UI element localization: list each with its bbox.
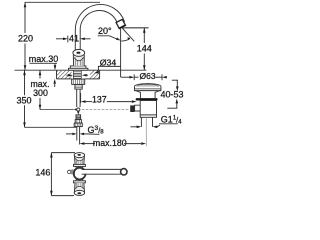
drain gasket bbox=[136, 98, 158, 100]
dim 350 top arrow bbox=[23, 70, 26, 75]
plan bottom knob neck bbox=[76, 178, 84, 181]
handle knob skirt curve bbox=[74, 57, 84, 60]
plan bottom knob flutes bbox=[76, 183, 82, 189]
dim 350 line bbox=[24, 70, 26, 95]
plan top knob neck bbox=[76, 166, 84, 169]
svg-text:350: 350 bbox=[16, 95, 31, 105]
spout outlet horizontal reference bbox=[122, 27, 149, 29]
svg-text:220: 220 bbox=[18, 34, 33, 44]
plan top knob skirt curve bbox=[75, 158, 85, 161]
drain tailpipe bbox=[140, 117, 142, 127]
plan spout tube bbox=[82, 170, 122, 174]
dim 350 bottom arrow bbox=[23, 122, 26, 127]
svg-text:Ø63: Ø63 bbox=[140, 71, 156, 81]
G3/8 connector threaded bbox=[76, 115, 81, 120]
threaded shank through counter bbox=[73, 70, 81, 79]
hole arrows in slab bbox=[68, 74, 73, 77]
svg-text:137: 137 bbox=[92, 95, 107, 105]
dim 220 bottom arrow bbox=[24, 65, 27, 70]
svg-text:Ø34: Ø34 bbox=[100, 57, 117, 67]
plan bottom knob base band bbox=[74, 181, 86, 183]
dim 220 top arrow bbox=[24, 2, 27, 7]
dim G3/8 leader arrows bbox=[66, 133, 72, 135]
plan top knob base band bbox=[74, 164, 86, 166]
dim Ø34 underline leader bbox=[98, 66, 120, 71]
plan spout end ring bbox=[121, 169, 127, 175]
plan left spigot bbox=[68, 170, 71, 173]
dim 220 top reference line bbox=[25, 1, 100, 3]
handle knob top slot bbox=[76, 52, 80, 54]
svg-text:20°: 20° bbox=[98, 26, 112, 36]
svg-text:max.30: max.30 bbox=[29, 54, 59, 64]
dim max30 drop line bbox=[54, 63, 56, 66]
threaded collar bbox=[75, 85, 82, 90]
svg-text:40-53: 40-53 bbox=[160, 89, 183, 99]
dim max300 line bbox=[39, 70, 41, 78]
dim max30 underline bbox=[30, 62, 58, 64]
countertop slab right section hatched bbox=[82, 70, 113, 78]
dim 137 extension line bbox=[80, 93, 82, 103]
dim 146 line bbox=[50, 153, 52, 196]
cross fitting circle bbox=[77, 108, 80, 111]
plan bottom knob bottom ellipse bbox=[74, 190, 84, 195]
cross fitting down arrow bbox=[77, 112, 79, 115]
dim max30 bottom arrow bbox=[53, 79, 56, 84]
handle knob flutes bbox=[75, 58, 82, 66]
locknut below counter bbox=[72, 79, 85, 84]
plan top knob flutes bbox=[76, 159, 82, 165]
dim max300 bottom arrow bbox=[39, 105, 42, 110]
20 deg arc with arrows bbox=[121, 39, 130, 41]
dim 137 bbox=[81, 100, 86, 103]
drain flange rim bbox=[135, 87, 161, 91]
20 deg leader bbox=[98, 36, 119, 40]
drain body bbox=[140, 101, 156, 118]
dim 146 top arrow bbox=[50, 153, 53, 158]
drain neck bbox=[135, 91, 160, 99]
G3/8 connector hex bbox=[75, 120, 81, 124]
plan center body circle bbox=[74, 168, 86, 180]
supply pipe bbox=[76, 89, 78, 107]
dim G1 1/4 underline bbox=[159, 123, 178, 125]
dim 40-53 top tick bbox=[172, 79, 178, 81]
dim 146 top tick bbox=[51, 152, 75, 154]
svg-text:max.180: max.180 bbox=[93, 138, 127, 148]
dim 350 bottom reference line bbox=[25, 126, 77, 128]
dim 146 bottom arrow bbox=[50, 191, 53, 196]
plan top knob slot bbox=[77, 154, 81, 156]
faucet base plate bbox=[70, 66, 86, 69]
20 deg angled line bbox=[122, 28, 134, 41]
G3/8 nut bbox=[74, 123, 82, 127]
cross fitting left arrow bbox=[74, 108, 77, 111]
countertop slab outline bbox=[56, 70, 58, 79]
countertop slab left section hatched bbox=[49, 71, 88, 79]
spout pipe bbox=[74, 30, 76, 50]
dim 144 line bbox=[143, 28, 145, 43]
plan top knob bbox=[74, 156, 84, 164]
spout outlet vertical reference bbox=[120, 28, 122, 77]
dim max180 bbox=[80, 142, 85, 145]
aerator outlet face bbox=[120, 25, 126, 28]
drain centerline bbox=[145, 117, 147, 146]
plan bottom knob bbox=[74, 183, 84, 191]
spout arc outer bbox=[75, 4, 124, 30]
dim 144 top tick bbox=[122, 27, 149, 29]
svg-text:146: 146 bbox=[35, 167, 50, 177]
hose lines bbox=[76, 127, 78, 141]
drain plug inner ellipse bbox=[137, 84, 159, 88]
pop-up rod line bbox=[40, 109, 74, 111]
handle knob top ellipse bbox=[73, 49, 85, 56]
plan top knob top ellipse bbox=[74, 153, 84, 158]
countertop surface line bbox=[15, 69, 147, 71]
plan bottom knob slot bbox=[77, 192, 81, 194]
dim 40-53 bottom bbox=[176, 99, 179, 104]
dim 146 bottom tick bbox=[51, 195, 74, 197]
spout arc inner bbox=[80, 11, 117, 31]
drain left port cap bbox=[130, 105, 134, 112]
svg-text:300: 300 bbox=[33, 88, 48, 98]
dim Ø34 leader arrow bbox=[94, 71, 99, 74]
svg-text:144: 144 bbox=[137, 44, 152, 54]
handle knob body bbox=[73, 54, 84, 66]
dim 220 line bbox=[24, 2, 26, 33]
dim Ø63 bbox=[121, 76, 130, 78]
dim max300 top arrow bbox=[39, 70, 42, 75]
svg-text:41: 41 bbox=[69, 34, 79, 44]
drain left port neck bbox=[135, 105, 141, 111]
drain flange ellipse bbox=[135, 84, 161, 90]
aerator block bbox=[116, 19, 125, 28]
plan bottom knob skirt curve bbox=[75, 186, 85, 189]
dim max30 top arrow bbox=[54, 65, 57, 70]
dim 41 bbox=[56, 38, 63, 40]
dim G1 1/4 arrows at tailpipe bbox=[131, 126, 137, 128]
